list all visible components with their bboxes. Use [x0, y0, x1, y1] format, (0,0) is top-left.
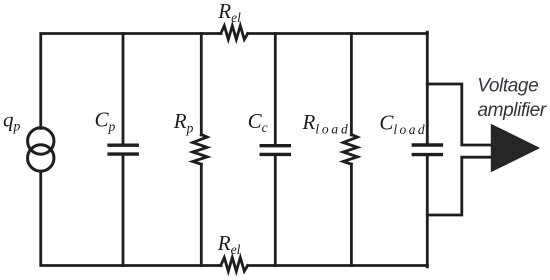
svg-text:Cload: Cload	[379, 110, 427, 137]
op-amp voltage amplifier triangle	[491, 125, 539, 172]
svg-text:Rel: Rel	[217, 0, 241, 25]
wire C_p branch upper	[122, 34, 125, 144]
svg-text:Voltage: Voltage	[477, 76, 538, 97]
svg-text:qp: qp	[3, 107, 21, 133]
wire right vertical / C_load branch lower	[426, 156, 429, 267]
wire left vertical lower	[41, 171, 221, 265]
wire R_load branch lower	[350, 164, 353, 265]
resistor R_el bottom	[221, 258, 248, 272]
svg-text:Rp: Rp	[173, 109, 194, 136]
svg-text:Cc: Cc	[248, 109, 268, 135]
wire R_load branch upper	[350, 34, 353, 136]
wire bottom rail right segment	[248, 264, 427, 267]
resistor R_load	[343, 135, 357, 165]
wire top rail right segment	[248, 32, 427, 35]
wire top rail left segment	[41, 34, 221, 129]
resistor R_el top	[221, 26, 248, 40]
resistor R_p	[193, 135, 208, 165]
wire R_p branch upper	[200, 34, 203, 136]
capacitor C_p plates	[107, 145, 138, 154]
wire C_p branch lower	[122, 156, 125, 266]
svg-text:Rel: Rel	[217, 231, 241, 257]
capacitor C_load plates	[412, 145, 444, 155]
wire R_p branch lower	[200, 164, 203, 265]
wire right vertical / C_load branch upper	[426, 32, 429, 143]
wire C_c branch lower	[274, 156, 277, 266]
current source q_p	[28, 128, 54, 171]
svg-text:Rload: Rload	[302, 110, 351, 137]
svg-text:Cp: Cp	[95, 107, 116, 133]
wire C_c branch upper	[274, 34, 277, 145]
svg-text:amplifier: amplifier	[478, 100, 547, 121]
wire amplifier bottom input arm	[427, 157, 492, 215]
capacitor C_c plates	[260, 146, 292, 155]
wire amplifier top input arm	[427, 84, 492, 145]
